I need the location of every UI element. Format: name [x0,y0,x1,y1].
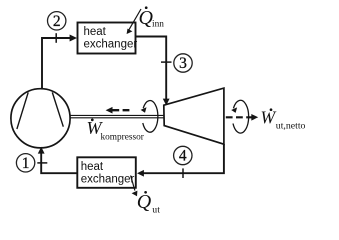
tick node 1 [37,162,47,164]
Q_inn heat arrow into box [127,9,141,34]
svg-text:inn: inn [152,20,164,30]
arrow into top heat exchanger [70,35,77,42]
left rotation arrow on shaft [141,101,158,133]
svg-text:4: 4 [179,148,187,165]
W_ut,netto dashed arrow [226,114,258,121]
wire heat exchanger outlet to turbine inlet [136,37,166,100]
wire bottom heat exchanger to compressor inlet [41,153,77,174]
arrow into bottom heat exchanger [137,170,144,177]
Q_ut label [137,191,160,216]
svg-text:1: 1 [22,155,30,172]
svg-text:kompressor: kompressor [101,133,145,143]
shaft compressor-turbine (double line) [70,115,164,117]
svg-text:W: W [261,108,277,128]
node 3 circle [174,54,192,72]
svg-text:Q: Q [137,191,152,213]
tick node 4 [182,168,184,178]
svg-text:ut,netto: ut,netto [276,121,306,132]
W_kompressor dashed arrow [106,107,130,114]
node 4 circle [174,146,192,164]
W_kompressor label [87,118,145,143]
turbine [164,88,224,144]
wire turbine outlet to bottom heat exchanger [143,144,224,173]
svg-text:2: 2 [53,13,61,30]
tick node 3 [161,61,172,63]
svg-text:ut: ut [152,205,160,216]
W_ut,netto label [261,108,306,132]
svg-text:exchanger: exchanger [81,173,135,185]
svg-text:heat: heat [84,26,107,38]
node 2 circle [48,12,66,30]
right rotation arrow on output shaft [231,100,248,133]
heat exchanger box (top) [78,23,138,54]
Q_ut heat arrow out of box [131,176,138,197]
svg-text:heat: heat [81,161,104,173]
tick node 2 [55,33,57,43]
compressor [11,89,70,148]
arrow into compressor [38,147,45,154]
arrow into turbine [163,99,170,106]
Q_inn label [139,6,165,29]
wire compressor top to heat exchanger inlet [42,38,71,89]
svg-text:3: 3 [179,55,187,72]
svg-text:exchanger: exchanger [84,39,138,51]
heat exchanger box (bottom) [77,157,136,188]
node 1 circle [16,154,34,172]
